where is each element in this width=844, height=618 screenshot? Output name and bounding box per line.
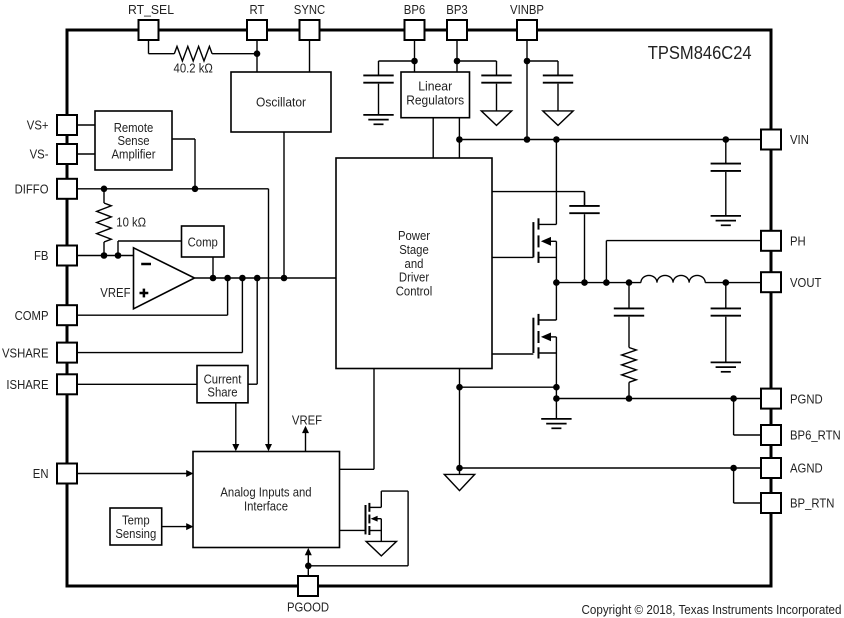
svg-text:VOUT: VOUT (790, 275, 821, 290)
wire RT_SEL pin to resistor (149, 40, 175, 54)
svg-text:VREF: VREF (292, 412, 322, 427)
node Q1 drain junction (553, 136, 560, 143)
svg-text:VINBP: VINBP (510, 2, 544, 17)
pin COMP (15, 305, 77, 325)
node Q2 source-AGND-link junction (553, 384, 560, 391)
power ground analog (444, 474, 474, 490)
node FB-resistor junction (101, 252, 108, 259)
wire Linear Regulators to VIN line (458, 118, 460, 158)
pin BP3 (446, 2, 467, 40)
transistor Q3 PGOOD open-drain MOSFET (366, 503, 382, 535)
wire resistor to RT node (212, 53, 257, 55)
wire PGOOD to Analog Inputs (307, 555, 309, 566)
wire BP3 pin down (456, 40, 458, 72)
svg-text:VS+: VS+ (27, 118, 49, 133)
wire Temp Sensing to Analog Inputs (162, 526, 187, 528)
pin VIN (761, 130, 809, 150)
pin VINBP (510, 2, 544, 40)
capacitor output (711, 283, 741, 362)
pin BP6 (404, 2, 425, 40)
wire Comp block to output line (212, 257, 214, 278)
transistor Q1 high-side MOSFET (533, 218, 556, 263)
svg-text:EN: EN (33, 466, 49, 481)
node analog ground upper junction (456, 384, 463, 391)
svg-text:ISHARE: ISHARE (6, 377, 48, 392)
copyright notice (582, 602, 842, 617)
wire inductor to VOUT pin (705, 282, 761, 284)
node AGND-BP_RTN junction (730, 465, 737, 472)
svg-text:BP3: BP3 (446, 2, 467, 17)
wire Q1 source to SW node (555, 241, 557, 282)
svg-text:40.2 kΩ: 40.2 kΩ (174, 61, 214, 76)
wire Linear Regulators to Power Stage (432, 118, 434, 158)
block Remote Sense Amplifier (95, 111, 172, 170)
node VOUT cap junction (723, 279, 730, 286)
block Power Stage and Driver Control (336, 158, 492, 369)
transistor Q2 low-side MOSFET (533, 314, 556, 359)
pin SYNC (294, 2, 325, 40)
svg-text:AGND: AGND (790, 461, 823, 476)
wire SW to Q2 drain (555, 283, 557, 320)
wire Q3 gate from Analog Inputs (340, 529, 366, 531)
node Q1 source SW junction (553, 279, 560, 286)
svg-text:TPSM846C24: TPSM846C24 (648, 43, 752, 63)
wire error amp output line (195, 277, 336, 279)
node RT junction (254, 50, 261, 57)
wire COMP pin line (77, 278, 228, 315)
block Linear Regulators (401, 72, 470, 118)
svg-text:Comp: Comp (188, 234, 218, 249)
label VREF op-amp input (100, 285, 130, 300)
pin BP6_RTN (761, 425, 841, 445)
power ground VINBP cap (543, 111, 573, 126)
svg-text:Analog Inputs and: Analog Inputs and (220, 485, 311, 500)
pin VS- (30, 144, 77, 164)
power ground Q3 (366, 541, 396, 556)
pin PGOOD (287, 576, 329, 615)
wire SYNC pin to Oscillator (309, 40, 311, 72)
capacitor bootstrap (569, 192, 599, 283)
capacitor BP6 bypass (363, 61, 393, 114)
svg-text:Driver: Driver (399, 270, 430, 285)
node Comp output junction (210, 275, 217, 282)
svg-text:VSHARE: VSHARE (2, 345, 49, 360)
svg-text:and: and (405, 256, 424, 271)
node AGND line junction (456, 465, 463, 472)
svg-text:PGOOD: PGOOD (287, 600, 329, 615)
inductor L1 output (641, 275, 705, 282)
wire Oscillator to error amp output line (283, 132, 285, 278)
wire PH pin (606, 241, 761, 283)
arrow PGOOD into Analog Inputs (305, 548, 312, 555)
pin AGND (761, 458, 823, 478)
node Q2 source-PGND junction (553, 395, 560, 402)
wire Q2 source down to power ground (555, 337, 557, 418)
svg-text:SYNC: SYNC (294, 2, 325, 17)
svg-text:DIFFO: DIFFO (15, 182, 49, 197)
resistor 10 kΩ feedback (97, 189, 112, 256)
arrow DIFFO into Analog Inputs (265, 444, 272, 451)
ground VIN cap (711, 216, 741, 225)
wire Q3 source to power ground (380, 519, 382, 542)
wire VS+ to Remote Sense Amplifier (77, 124, 95, 126)
svg-text:VREF: VREF (100, 285, 130, 300)
svg-text:PGND: PGND (790, 391, 823, 406)
svg-text:Regulators: Regulators (406, 92, 464, 107)
arrow Temp Sensing into Analog Inputs (186, 523, 193, 530)
wire DIFFO down to Analog Inputs (268, 189, 270, 445)
node PGND-BP6_RTN junction (730, 395, 737, 402)
wire snubber to PGND (628, 382, 630, 398)
pin DIFFO (15, 179, 77, 199)
svg-text:Sensing: Sensing (115, 526, 156, 541)
node VIN input cap junction (723, 136, 730, 143)
svg-text:Copyright © 2018, Texas Instru: Copyright © 2018, Texas Instruments Inco… (582, 602, 842, 617)
wire VIN to Q1 drain (555, 140, 557, 225)
pin FB (34, 246, 77, 266)
pin PGND (761, 389, 823, 409)
pin EN (33, 464, 77, 484)
svg-text:VS-: VS- (30, 147, 49, 162)
power ground BP3 cap (481, 111, 511, 126)
label VREF net (292, 412, 322, 427)
pin RT (247, 2, 267, 40)
node RSA-DIFFO junction (192, 186, 199, 193)
label 10 kΩ (116, 215, 146, 230)
node BP6 junction (411, 58, 418, 65)
wire FB line (77, 255, 134, 257)
node FB-comp junction (115, 252, 122, 259)
block Analog Inputs and Interface (193, 452, 340, 548)
node VSHARE net junction (239, 275, 246, 282)
ground Q2 source (541, 419, 571, 428)
wire AGND line (460, 467, 762, 469)
capacitor snubber (614, 283, 644, 348)
wire VINBP pin down to VIN line (526, 40, 528, 140)
svg-text:COMP: COMP (15, 308, 49, 323)
ground output cap (711, 362, 741, 371)
resistor snubber (622, 348, 637, 383)
node snubber-PGND junction (626, 395, 633, 402)
title TPSM846C24 (648, 43, 752, 63)
wire Power Stage bottom to analog ground (459, 368, 461, 474)
block Temp Sensing (110, 508, 162, 545)
svg-text:BP6: BP6 (404, 2, 425, 17)
node DIFFO-resistor junction (101, 186, 108, 193)
arrow VREF up (302, 426, 309, 433)
label 40.2 kΩ (174, 61, 214, 76)
svg-text:VIN: VIN (790, 132, 809, 147)
svg-text:Oscillator: Oscillator (256, 94, 307, 109)
svg-text:BP6_RTN: BP6_RTN (790, 428, 841, 443)
wire BP6_RTN link (734, 399, 761, 436)
pin ISHARE (6, 374, 77, 394)
block Oscillator (231, 72, 331, 132)
svg-text:Power: Power (398, 228, 431, 243)
node bootstrap-SW junction (581, 279, 588, 286)
svg-text:Interface: Interface (244, 498, 288, 513)
wire BP_RTN link (734, 468, 761, 503)
block Comp (182, 226, 225, 257)
wire DIFFO line (77, 188, 269, 190)
block Current Share (197, 366, 248, 403)
svg-text:Control: Control (396, 283, 433, 298)
node VINBP junction (524, 58, 531, 65)
svg-text:FB: FB (34, 248, 49, 263)
wire Current Share to output line (248, 278, 257, 384)
node current share net junction (254, 275, 261, 282)
capacitor VINBP bypass (543, 61, 573, 111)
svg-text:Share: Share (207, 385, 237, 400)
wire Current Share to Analog Inputs (235, 403, 237, 445)
wire VIN line (459, 139, 761, 141)
op-amp U1 error amplifier (134, 248, 195, 309)
node BP3 junction (454, 58, 461, 65)
node oscillator line junction (281, 275, 288, 282)
node snubber junction (626, 279, 633, 286)
wire RT pin to Oscillator (256, 40, 258, 72)
svg-text:PH: PH (790, 234, 806, 249)
pin PH (761, 231, 806, 251)
svg-text:Amplifier: Amplifier (112, 147, 157, 162)
node PH junction (603, 279, 610, 286)
wire VREF net from Analog Inputs (305, 433, 307, 452)
arrow EN into Analog Inputs (186, 470, 193, 477)
wire analog ground link to Q2 source (460, 386, 557, 388)
capacitor BP3 bypass (481, 61, 511, 111)
wire Remote Sense Amplifier output (172, 139, 195, 189)
wire BP6 pin down (414, 40, 416, 72)
wire SW node line (556, 282, 641, 284)
wire Q1 gate (492, 256, 533, 258)
wire VS- to Remote Sense Amplifier (77, 153, 95, 155)
wire PGOOD junction to pin (307, 566, 309, 576)
svg-text:10 kΩ: 10 kΩ (116, 215, 146, 230)
wire FB to Comp block (118, 241, 182, 256)
wire ISHARE pin line (77, 383, 197, 385)
svg-text:BP_RTN: BP_RTN (790, 496, 834, 511)
wire BP6 to bypass cap (379, 60, 415, 62)
wire VSHARE pin line (77, 278, 242, 353)
pin BP_RTN (761, 493, 834, 513)
node VIN-VINBP junction (524, 136, 531, 143)
capacitor VIN input (711, 140, 741, 216)
svg-text:RT_SEL: RT_SEL (128, 2, 174, 17)
wire bootstrap from Power Stage (492, 192, 585, 206)
wire Q3 drain loop (308, 491, 408, 566)
wire EN to Analog Inputs (77, 473, 187, 475)
wire Q2 gate (492, 353, 533, 355)
node VIN-LR junction (456, 136, 463, 143)
wire VINBP to bypass cap (527, 60, 558, 62)
wire PGND line (556, 398, 761, 400)
wire BP3 to bypass cap (457, 60, 497, 62)
arrow Current Share into Analog Inputs (232, 444, 239, 451)
pin VS+ (27, 115, 77, 135)
node COMP net junction (224, 275, 231, 282)
wire Analog Inputs to Power Stage (340, 368, 375, 469)
module outline border (67, 30, 771, 586)
svg-text:Stage: Stage (399, 242, 429, 257)
resistor 40.2 kΩ (174, 46, 212, 61)
ground BP6 cap (363, 115, 393, 124)
pin RT_SEL (128, 2, 174, 40)
node PGOOD junction (305, 563, 312, 570)
pin VOUT (761, 272, 821, 292)
svg-text:RT: RT (250, 2, 265, 17)
pin VSHARE (2, 343, 77, 363)
